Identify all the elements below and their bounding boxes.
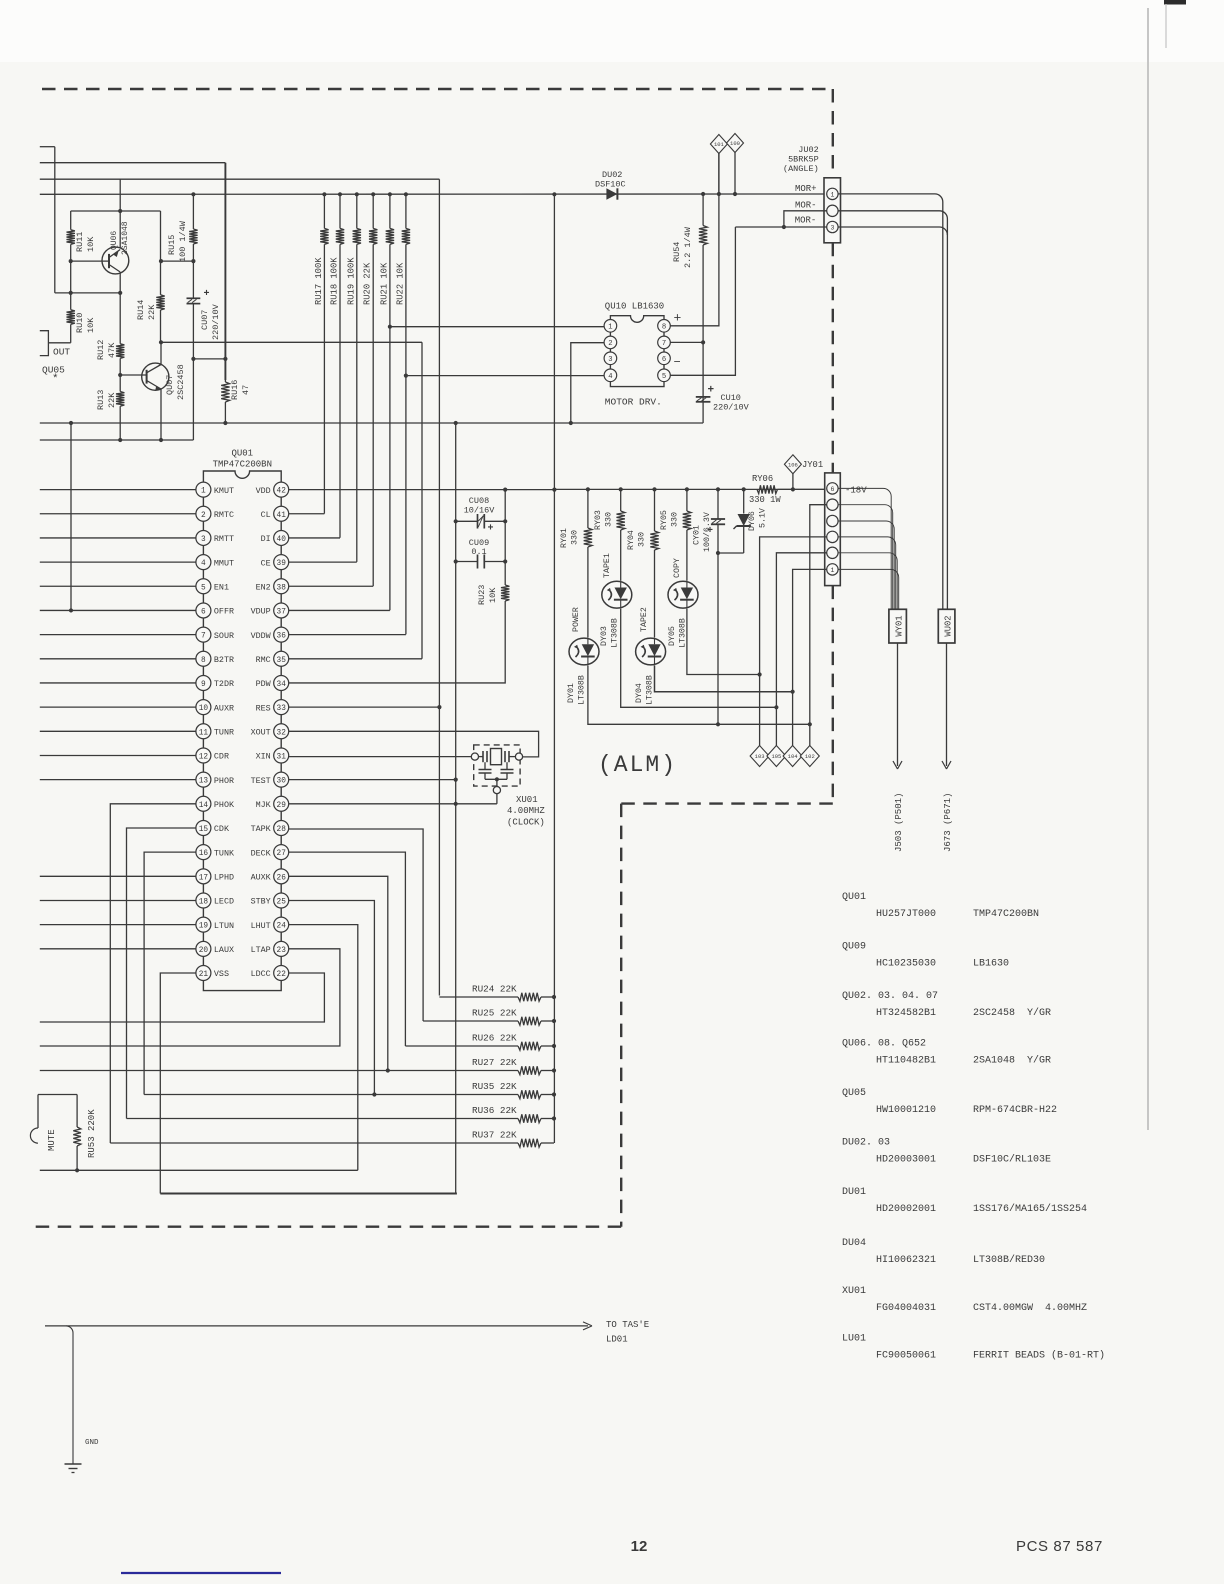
wire JY01 drop: [792, 474, 794, 490]
svg-text:+: +: [204, 289, 210, 300]
wire pin35 RMC to column x422: [289, 658, 422, 660]
svg-text:+: +: [708, 385, 715, 397]
wire diamond100 drop: [734, 153, 736, 195]
node row1/gnd column: [454, 421, 458, 425]
node QU07 collector/RU14 row342: [159, 340, 163, 344]
resistor RU18 100K: [338, 192, 342, 196]
svg-text:LDCC: LDCC: [251, 969, 271, 979]
svg-text:26: 26: [277, 874, 287, 882]
wire pin12 CDR to left edge: [40, 754, 196, 756]
wire motor pin8 jog: [670, 153, 719, 326]
connector JY01 pin 5: [827, 499, 838, 510]
svg-text:12: 12: [631, 1538, 648, 1555]
svg-text:14: 14: [199, 802, 209, 810]
node MUTE row/RU53: [75, 1168, 79, 1172]
wire GND branch: [66, 1326, 73, 1464]
resistor RU11 10K: [70, 211, 72, 230]
svg-text:QU01: QU01: [231, 449, 253, 459]
wire pin9 T2DR to left edge: [40, 682, 196, 684]
wire pin42 VDD row: [289, 489, 555, 491]
LED DY03 TAPE1: [602, 581, 632, 608]
wire pin30 TEST to gnd col: [289, 779, 456, 781]
resistor RU13 22K: [119, 375, 121, 392]
svg-text:HW10001210: HW10001210: [876, 1105, 936, 1116]
wire DY06 to CY01 link: [718, 552, 744, 554]
svg-text:16: 16: [199, 850, 209, 858]
diamond 101: [710, 135, 727, 154]
wire JY01 pin6 cable: [838, 488, 891, 609]
svg-text:VDD: VDD: [256, 486, 271, 496]
IC pin 4 MMUT: [196, 555, 211, 570]
svg-text:RU22 10K: RU22 10K: [395, 262, 405, 305]
wire JY01 pin2 cable: [838, 553, 897, 610]
svg-text:36: 36: [277, 633, 287, 641]
svg-text:VDDW: VDDW: [251, 631, 272, 641]
svg-text:CDK: CDK: [214, 824, 230, 834]
svg-text:QU06: QU06: [110, 231, 119, 250]
svg-text:220/10V: 220/10V: [211, 303, 221, 340]
resistor RU36 22K: [127, 1118, 519, 1120]
svg-text:RU12: RU12: [96, 340, 106, 360]
resistor RU54 2.2 1/4W: [702, 194, 704, 226]
wire JY01 pin1 cable: [838, 569, 899, 609]
IC pin 36 VDDW: [274, 627, 289, 642]
node row691/d104col: [791, 690, 795, 694]
node RU27/VDD col: [552, 1068, 556, 1072]
resistor RU35 22K: [144, 1094, 518, 1096]
node row1/motor pin2 col: [569, 421, 573, 425]
svg-text:TMP47C200BN: TMP47C200BN: [213, 460, 272, 470]
node row707/d105col: [774, 705, 778, 709]
svg-text:DI: DI: [261, 534, 271, 544]
scan page-edge stub below bar: [1165, 4, 1167, 48]
svg-text:T2DR: T2DR: [214, 679, 234, 689]
node RU25/VDD col: [552, 1019, 556, 1023]
svg-text:RU16: RU16: [230, 380, 240, 400]
crystal XU01 dashed box: [474, 745, 520, 786]
svg-text:1: 1: [830, 567, 834, 574]
node row2/RU13: [118, 438, 122, 442]
svg-text:3: 3: [830, 225, 834, 232]
svg-text:RU20 22K: RU20 22K: [363, 262, 373, 305]
svg-text:LB1630: LB1630: [973, 959, 1009, 970]
svg-text:RU21 10K: RU21 10K: [379, 262, 389, 305]
svg-text:100/6.3V: 100/6.3V: [702, 512, 712, 552]
LED DY01 POWER: [569, 638, 599, 665]
svg-text:15: 15: [199, 826, 209, 834]
svg-text:EN1: EN1: [214, 582, 229, 592]
svg-text:LHUT: LHUT: [251, 921, 271, 931]
svg-text:KMUT: KMUT: [214, 486, 234, 496]
svg-text:XU01: XU01: [842, 1286, 866, 1297]
IC pin 22 LDCC: [274, 966, 289, 981]
svg-text:4.00MHZ: 4.00MHZ: [507, 806, 545, 816]
node VDD/RU23col: [503, 488, 507, 492]
svg-text:RY04: RY04: [627, 530, 636, 550]
IC pin 17 LPHD: [196, 869, 211, 884]
wire row2 y440: [40, 439, 194, 441]
svg-text:POWER: POWER: [572, 607, 581, 632]
svg-text:RU27 22K: RU27 22K: [472, 1057, 517, 1068]
IC pin 2 RMTC: [196, 506, 211, 521]
svg-text:LPHD: LPHD: [214, 873, 234, 883]
wire crystal gnd drop: [496, 790, 498, 804]
node RU36/VDD col: [552, 1116, 556, 1120]
svg-text:(CLOCK): (CLOCK): [507, 818, 545, 828]
svg-text:33: 33: [277, 705, 287, 713]
svg-text:RU14: RU14: [136, 300, 146, 320]
node bus489 x718: [716, 487, 720, 491]
svg-text:40: 40: [277, 536, 287, 544]
svg-text:19: 19: [199, 923, 209, 931]
svg-text:10: 10: [199, 705, 209, 713]
svg-text:RMTT: RMTT: [214, 534, 234, 544]
wire JY01 pin3 jog: [760, 537, 827, 746]
svg-text:41: 41: [277, 512, 287, 520]
svg-text:CU07: CU07: [200, 310, 210, 330]
IC pin 30 TEST: [274, 772, 289, 787]
wire pin14 PHOK jog: [110, 804, 196, 1143]
svg-text:100 1/4W: 100 1/4W: [178, 220, 188, 262]
IC pin 32 XOUT: [274, 724, 289, 739]
resistor RU20 22K: [371, 192, 375, 196]
svg-text:RU10: RU10: [75, 313, 85, 333]
svg-text:10/16V: 10/16V: [464, 506, 496, 516]
connector JY01 pin 4: [827, 515, 838, 526]
node row2/QU07 emitter: [159, 438, 163, 442]
wire pin15 CDK jog: [127, 828, 196, 1119]
wire JY01 pin4 cable: [838, 521, 894, 609]
svg-text:10K: 10K: [488, 587, 498, 603]
diamond 105: [767, 746, 786, 767]
resistor RU21 10K: [388, 192, 392, 196]
IC pin 26 AUXK: [274, 869, 289, 884]
svg-text:CU10: CU10: [721, 393, 741, 403]
capacitor CU08 10/16V: [477, 514, 479, 529]
resistor RU27 22K: [40, 1070, 518, 1072]
svg-text:CST4.00MGW 4.00MHZ: CST4.00MGW 4.00MHZ: [973, 1303, 1087, 1314]
node bus489 x792: [791, 487, 795, 491]
node motorpin4/VDDW col: [404, 374, 408, 378]
node row724/d102col: [808, 722, 812, 726]
svg-text:TEST: TEST: [251, 776, 271, 786]
node bus489 x743: [742, 487, 746, 491]
svg-text:LT308B: LT308B: [646, 675, 655, 705]
svg-text:24: 24: [277, 923, 287, 931]
svg-text:22K: 22K: [107, 392, 117, 408]
IC pin 14 PHOK: [196, 796, 211, 811]
resistor RU37 22K: [110, 1142, 518, 1144]
resistor RU26 22K: [405, 1045, 518, 1047]
wire pin28 TAPK jog: [289, 829, 423, 1021]
wire motor pin2 jog: [571, 343, 604, 423]
diamond 100: [727, 134, 744, 153]
IC pin 34 PDW: [274, 675, 289, 690]
scan black bar top right corner: [1164, 0, 1186, 5]
svg-text:COPY: COPY: [673, 558, 682, 578]
node RU15 top on B+ bus: [191, 192, 195, 196]
resistor RY03 330: [620, 489, 622, 511]
svg-text:PDW: PDW: [256, 679, 272, 689]
wire WU02 down arrow: [946, 643, 948, 766]
svg-text:JY01: JY01: [802, 460, 823, 470]
node row674/d103col: [758, 672, 762, 676]
svg-text:330: 330: [571, 530, 580, 545]
svg-text:220/10V: 220/10V: [713, 403, 750, 413]
svg-text:100: 100: [730, 140, 740, 147]
wire pin1 KMUT to left edge: [40, 489, 196, 491]
node MJK/gnd col: [454, 802, 458, 806]
svg-text:2SA1048 Y/GR: 2SA1048 Y/GR: [973, 1055, 1051, 1067]
svg-text:RY05: RY05: [660, 510, 669, 530]
svg-text:MOR+: MOR+: [795, 184, 817, 194]
wire QU07 base row y375: [120, 374, 146, 376]
svg-text:AUXK: AUXK: [251, 873, 272, 883]
IC pin 6 OFFR: [196, 603, 211, 618]
svg-text:FERRIT BEADS (B-01-RT): FERRIT BEADS (B-01-RT): [973, 1350, 1105, 1362]
node QU06 emitter junction row211: [118, 209, 122, 213]
node OFFR/x71: [69, 608, 73, 612]
wire pin3 RMTT to left edge: [40, 537, 196, 539]
svg-text:7: 7: [662, 340, 666, 348]
svg-text:18: 18: [199, 898, 209, 906]
wire motor pin7 row: [670, 341, 703, 343]
connector JU02 pin3: [827, 221, 838, 232]
svg-text:RMC: RMC: [256, 655, 271, 665]
svg-text:OUT: OUT: [53, 347, 70, 358]
svg-text:13: 13: [199, 778, 209, 786]
svg-text:101: 101: [714, 141, 725, 148]
wire row y292: [55, 292, 120, 294]
svg-text:37: 37: [277, 608, 287, 616]
IC pin 15 CDK: [196, 820, 211, 835]
transistor QU07 2SC2458: [142, 363, 169, 390]
node VDD/x554: [552, 488, 556, 492]
svg-text:330 1W: 330 1W: [749, 495, 781, 505]
svg-text:HC10235030: HC10235030: [876, 959, 936, 970]
svg-text:MMUT: MMUT: [214, 558, 234, 568]
IC pin 24 LHUT: [274, 917, 289, 932]
svg-text:HD20003001: HD20003001: [876, 1155, 936, 1166]
wire WU02 mid: [942, 608, 944, 610]
svg-text:11: 11: [199, 729, 209, 737]
resistor RU12 47K: [119, 293, 121, 344]
wire RMC column x422: [421, 342, 423, 658]
wire pin5 EN1 to left edge: [40, 585, 196, 587]
wire JY01 pin2 jog: [776, 553, 826, 746]
svg-text:CY01: CY01: [693, 525, 702, 545]
wire bus y179 (RES line): [40, 178, 440, 180]
svg-text:DY03: DY03: [600, 626, 609, 646]
svg-text:42: 42: [277, 488, 287, 496]
svg-text:2SC2458 Y/GR: 2SC2458 Y/GR: [973, 1007, 1051, 1019]
svg-text:30: 30: [277, 778, 287, 786]
dashed border bottom: [35, 1225, 621, 1227]
QU10 pin 4: [604, 369, 617, 382]
svg-text:7: 7: [201, 633, 206, 641]
node CU09 right: [503, 559, 507, 563]
IC pin 3 RMTT: [196, 530, 211, 545]
dashed border step vertical: [620, 804, 622, 1227]
svg-text:104: 104: [788, 753, 799, 760]
node pin8col/B+ bus: [717, 192, 721, 196]
svg-text:RU23: RU23: [477, 585, 487, 605]
svg-text:RMTC: RMTC: [214, 510, 234, 520]
svg-text:HD20002001: HD20002001: [876, 1204, 936, 1215]
svg-text:23: 23: [277, 947, 287, 955]
IC pin 38 EN2: [274, 579, 289, 594]
QU10 pin 7: [658, 336, 671, 349]
svg-text:8: 8: [201, 657, 206, 665]
IC pin 8 B2TR: [196, 651, 211, 666]
svg-text:21: 21: [199, 971, 209, 979]
svg-text:47: 47: [241, 385, 251, 395]
svg-text:GND: GND: [85, 1439, 99, 1447]
diamond 103: [750, 746, 769, 767]
wire pin29 MJK row: [289, 803, 497, 805]
svg-text:+: +: [674, 311, 682, 326]
wire pin41 CL to column x324: [289, 513, 325, 515]
node TEST/gnd: [454, 778, 458, 782]
svg-text:*: *: [52, 374, 59, 386]
wire motor pin5 jog: [670, 227, 735, 375]
svg-text:MUTE: MUTE: [47, 1129, 57, 1151]
capacitor CY01 100/6.3V: [717, 489, 719, 519]
svg-text:LT308B: LT308B: [611, 618, 620, 648]
wire pin36 VDDW to column x405: [289, 634, 406, 636]
svg-text:RU24 22K: RU24 22K: [472, 984, 517, 995]
wire DY05 to row674: [687, 609, 760, 675]
svg-text:330: 330: [671, 512, 680, 527]
svg-text:QU05: QU05: [842, 1088, 866, 1099]
svg-text:JU02: JU02: [798, 145, 818, 155]
resistor RU17 100K: [322, 192, 326, 196]
svg-text:4: 4: [608, 373, 612, 381]
wire pin34 PDW to RU23: [289, 601, 506, 683]
node RU35/pin25col: [372, 1092, 376, 1096]
IC pin 20 LAUX: [196, 941, 211, 956]
svg-text:AUXR: AUXR: [214, 703, 234, 713]
svg-text:35: 35: [277, 657, 287, 665]
svg-text:12: 12: [199, 753, 209, 761]
svg-text:RY03: RY03: [594, 510, 603, 530]
wire bus y162: [40, 162, 226, 164]
svg-text:RU26 22K: RU26 22K: [472, 1033, 517, 1044]
svg-text:3: 3: [608, 356, 612, 364]
svg-text:DU02: DU02: [602, 170, 622, 180]
svg-text:5BRK5P: 5BRK5P: [788, 155, 819, 165]
resistor RU19 100K: [355, 192, 359, 196]
transistor QU06 2SA1048: [119, 179, 121, 248]
IC pin 29 MJK: [274, 796, 289, 811]
IC pin 41 CL: [274, 506, 289, 521]
wire row y211: [71, 210, 161, 212]
svg-text:PCS 87 587: PCS 87 587: [1016, 1538, 1103, 1555]
IC pin 21 VSS: [196, 966, 211, 981]
resistor RU16 47: [224, 359, 226, 382]
node row358 right: [223, 357, 227, 361]
svg-text:PHOR: PHOR: [214, 776, 234, 786]
diamond 104: [783, 746, 802, 767]
resistor RY05 330: [686, 489, 688, 511]
wire JY01 pin5 jog: [810, 505, 827, 746]
wire ground row1 y423: [40, 422, 703, 424]
connector JU02 pin2: [827, 205, 838, 216]
svg-text:330: 330: [638, 532, 647, 547]
wire DY01 to row724: [588, 665, 810, 724]
node bus489 x686: [685, 487, 689, 491]
crystal XU01 symbol: [471, 753, 478, 760]
node motorpin1/VDUP col: [388, 325, 392, 329]
svg-text:RU17 100K: RU17 100K: [314, 257, 324, 305]
wire WU02 upper pair: [946, 642, 948, 644]
diamond 102: [800, 746, 819, 767]
wire pin37 VDUP to column x389: [289, 609, 390, 611]
svg-text:MOR-: MOR-: [795, 201, 817, 211]
svg-text:QU10 LB1630: QU10 LB1630: [605, 302, 664, 312]
IC pin 23 LTAP: [274, 941, 289, 956]
svg-text:2SC2458: 2SC2458: [176, 364, 186, 400]
QU10 pin 2: [604, 336, 617, 349]
resistor RU23 10K: [501, 585, 509, 601]
node RU24/VDD col: [552, 995, 556, 999]
wire pin19 LTUN to left edge: [40, 924, 196, 926]
connector JY01 pin 3: [827, 531, 838, 542]
svg-text:105: 105: [771, 753, 781, 760]
svg-text:2SA1048: 2SA1048: [121, 221, 130, 255]
svg-text:OFFR: OFFR: [214, 607, 234, 617]
resistor RU15 100 1/4W: [192, 194, 194, 229]
svg-text:2.2 1/4W: 2.2 1/4W: [683, 226, 693, 268]
svg-text:20: 20: [199, 947, 209, 955]
scan page-edge grey line right: [1147, 8, 1149, 1130]
svg-text:47K: 47K: [107, 342, 117, 358]
node RU54 top on bus: [701, 192, 705, 196]
cable WY01 box: [889, 609, 907, 643]
svg-text:CE: CE: [261, 558, 271, 568]
svg-text:10K: 10K: [86, 317, 96, 333]
wire ground column x455: [455, 423, 457, 1194]
zener DY06 5.1V: [743, 489, 745, 513]
svg-text:LAUX: LAUX: [214, 945, 234, 955]
IC pin 27 DECK: [274, 845, 289, 860]
wire RMC row y342: [161, 341, 422, 343]
svg-text:QU09: QU09: [842, 942, 866, 953]
wire B+ bus y194: [40, 193, 827, 195]
svg-text:DU02. 03: DU02. 03: [842, 1138, 890, 1149]
wire JY01 pin1 jog: [793, 569, 827, 745]
svg-text:RU15: RU15: [167, 235, 177, 255]
node RU27/pin26col: [386, 1068, 390, 1072]
wire pin25 STBY jog: [289, 900, 375, 1094]
svg-text:−: −: [674, 356, 681, 370]
node diamond100/bus: [733, 192, 737, 196]
QU10 pin 1: [604, 320, 617, 333]
svg-text:RY06: RY06: [752, 474, 773, 484]
node row1/RU16 bottom: [223, 421, 227, 425]
svg-text:B2TR: B2TR: [214, 655, 234, 665]
wire pin26 AUXK jog: [289, 876, 388, 1070]
svg-text:CDR: CDR: [214, 752, 229, 762]
wire vertical x54: [54, 147, 56, 293]
wire row y358 CU07-x225: [193, 358, 225, 360]
wire JU02 pin3 out: [838, 227, 947, 235]
resistor RU10 10K: [70, 261, 72, 310]
capacitor CU07 220/10V: [192, 261, 194, 298]
wire pin21 VSS jog: [160, 973, 196, 1194]
svg-text:TUNK: TUNK: [214, 848, 235, 858]
node RU35/VDD col: [552, 1092, 556, 1096]
